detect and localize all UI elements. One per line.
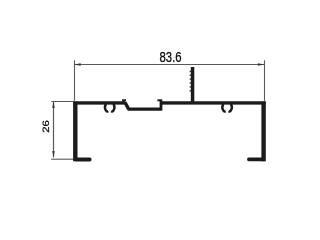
channel left diagonal step [125, 102, 129, 109]
dimension line 26 [53, 102, 55, 158]
fin tooth 4 [190, 82, 191, 83]
channel right tab [157, 99, 162, 101]
profile: left foot [76, 158, 90, 162]
arrowhead top of 26 dim [52, 102, 55, 108]
arrowhead bottom of 26 dim [52, 151, 55, 157]
arrowhead left of 83.6 dim [74, 63, 80, 66]
profile: right foot [249, 157, 263, 161]
fin tooth 1 [190, 71, 191, 72]
dimension line 83.6 [74, 64, 264, 66]
profile: right leg [261, 101, 265, 161]
fin tooth 2 [190, 75, 191, 76]
screw-port hook pair 1 left hook [105, 104, 108, 111]
serrated fin [191, 67, 195, 103]
extension line right (83.6 dim) [264, 60, 266, 101]
screw-port hook pair 2 right hook [229, 104, 232, 111]
profile: top web left segment [73, 101, 125, 104]
extension line left (83.6 dim) [74, 60, 76, 101]
fin tooth 3 [190, 78, 191, 79]
profile: left leg [73, 101, 77, 161]
fin tooth 5 [190, 86, 191, 87]
fin tooth 6 [190, 90, 191, 91]
svg-text:26: 26 [41, 120, 51, 133]
channel right riser [160, 101, 163, 111]
svg-text:83.6: 83.6 [160, 50, 182, 66]
extension line bottom (26 dim) [51, 158, 73, 160]
channel left tab [122, 99, 126, 101]
arrowhead right of 83.6 dim [258, 63, 264, 66]
screw-port hook pair 1 right hook [111, 104, 114, 111]
screw-port hook pair 2 left hook [222, 104, 225, 111]
profile: top web right segment [160, 101, 266, 104]
extension line top (26 dim) [51, 101, 73, 103]
channel bottom [128, 108, 161, 111]
